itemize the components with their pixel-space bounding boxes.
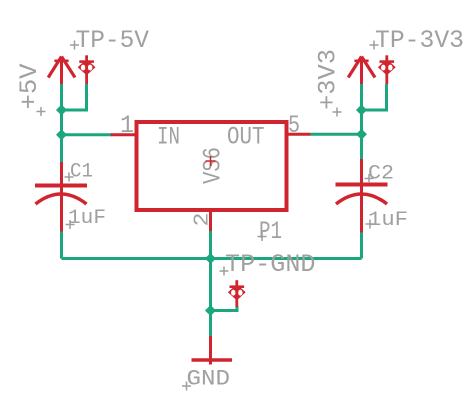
- wire C2 bottom: [360, 233, 363, 259]
- svg-text:1uF: 1uF: [68, 207, 106, 230]
- capacitor C2: [336, 159, 388, 233]
- svg-text:2: 2: [192, 213, 215, 227]
- junction at pin5 branch: [356, 129, 367, 140]
- svg-text:C2: C2: [368, 163, 394, 186]
- origin cross 1uF right: [366, 220, 375, 229]
- pin 5 lead: [289, 133, 311, 136]
- svg-text:TP-5V: TP-5V: [76, 26, 150, 55]
- wire right vertical from +3V3 arrow down to C2: [360, 84, 363, 159]
- wire from pin 5: [311, 133, 362, 136]
- origin cross TP-5V: [70, 41, 79, 50]
- svg-text:IN: IN: [157, 123, 180, 152]
- origin cross +3V3: [333, 108, 342, 117]
- svg-text:1uF: 1uF: [368, 209, 408, 232]
- junction at pin1 branch: [56, 129, 67, 140]
- origin cross C2: [365, 174, 374, 183]
- regulator U/VS6 box: [137, 122, 287, 210]
- wire C1 bottom: [60, 232, 63, 259]
- junction at +3V3 / TP-3V3: [356, 105, 367, 116]
- part origin cross VS6: [206, 156, 216, 166]
- origin cross C1: [65, 173, 74, 182]
- origin cross P1: [258, 232, 267, 241]
- wire to pin 1: [62, 133, 113, 136]
- svg-text:+5V: +5V: [15, 64, 44, 110]
- wire left vertical from +5V arrow down to C1: [60, 84, 63, 162]
- supply +5V arrow symbol: [48, 57, 75, 85]
- svg-text:TP-3V3: TP-3V3: [375, 26, 464, 55]
- junction at +5V / TP-5V: [56, 105, 67, 116]
- testpoint TP-5V symbol: [78, 55, 96, 84]
- testpoint TP-GND symbol: [228, 280, 246, 307]
- svg-text:TP-GND: TP-GND: [225, 250, 316, 279]
- wire rail down to GND: [209, 259, 212, 337]
- origin cross TP-3V3: [370, 41, 379, 50]
- origin cross +5V: [37, 107, 46, 116]
- wire pin 2 down to rail: [209, 231, 212, 259]
- svg-text:C1: C1: [70, 161, 93, 184]
- ground symbol GND: [192, 336, 233, 365]
- origin cross TP-GND: [220, 267, 229, 276]
- junction at ground rail / pin2: [205, 253, 216, 264]
- wire TP-3V3 branch: [362, 84, 387, 110]
- origin cross GND: [182, 382, 191, 391]
- testpoint TP-3V3 symbol: [378, 55, 396, 84]
- svg-text:+3V3: +3V3: [314, 49, 343, 110]
- wire TP-GND branch: [211, 306, 238, 311]
- svg-text:1: 1: [120, 111, 134, 140]
- junction at TP-GND branch: [205, 305, 216, 316]
- pin 1 lead: [111, 133, 136, 136]
- pin 2 lead: [209, 212, 212, 231]
- wire TP-5V branch: [62, 84, 87, 110]
- capacitor C1: [35, 162, 87, 232]
- svg-text:GND: GND: [187, 367, 231, 392]
- supply +3V3 arrow symbol: [348, 57, 375, 85]
- wire ground rail: [62, 257, 362, 260]
- svg-text:VS6: VS6: [199, 147, 228, 184]
- svg-text:P1: P1: [259, 217, 282, 246]
- svg-text:OUT: OUT: [227, 123, 265, 152]
- svg-text:5: 5: [288, 111, 300, 140]
- origin cross 1uF left: [66, 220, 75, 229]
